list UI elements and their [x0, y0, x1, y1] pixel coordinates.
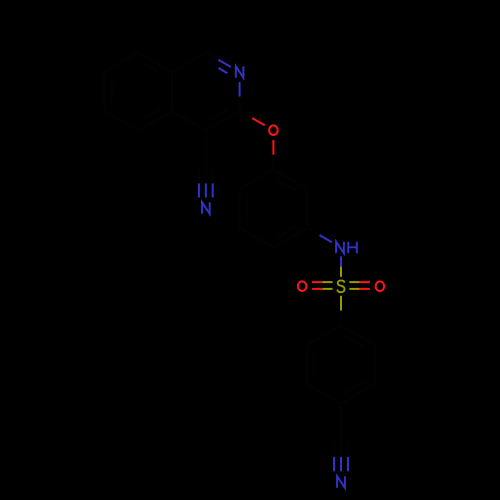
atom label O1 (ether oxygen) — [269, 125, 278, 135]
triple bond CN2#NN2 (para-cyano) — [340, 443, 342, 457]
bond C4a=C5 (double) — [138, 111, 172, 131]
bond C5-C6 — [104, 111, 138, 131]
bond O1-A1 — [272, 140, 274, 155]
bond B2-B3 — [374, 345, 376, 384]
bond C8=C8a (double) — [138, 53, 172, 73]
bond A5=A6 (double) — [239, 189, 241, 228]
bond C3=C4 (double) — [206, 111, 240, 131]
bond C1=N2 (isoquinoline C1 to ring N, double) — [206, 53, 219, 60]
bond B5=B6 (double) — [306, 345, 308, 384]
atom label N2 (isoquinoline nitrogen) — [236, 66, 244, 78]
bond B6-B1 — [307, 326, 341, 346]
benzene ring B: bond B1=B2 (double) — [341, 326, 375, 346]
bond C3-O1 (aryl ether) — [240, 111, 253, 118]
bond C8a-C1 — [172, 53, 206, 73]
bond S-B1 — [340, 296, 342, 311]
bond C7-C8 — [104, 53, 138, 73]
bond A3-N3 (to sulfonamide NH) — [307, 228, 319, 235]
bond A2-A3 — [306, 189, 308, 228]
bond A6-A1 — [240, 170, 274, 190]
bond C4-CN1 (to nitrile carbon) — [205, 131, 207, 170]
triple bond CN1#NN1 (nitrile) — [205, 170, 207, 184]
bond C4-C4a — [172, 111, 206, 131]
double bond S=O2 (left sulfonyl oxygen) — [322, 281, 332, 283]
bond C4a-C8a (ring fusion) — [171, 72, 173, 111]
atom label NN2 (para-cyano nitrogen) — [337, 476, 345, 488]
bond B4-CN2 (to nitrile carbon) — [340, 404, 342, 443]
atom label S (sulfonyl sulfur) — [337, 280, 344, 292]
benzene ring A: bond A1=A2 (double) — [273, 170, 307, 190]
bond C6=C7 (double) — [103, 72, 105, 111]
bond N2-C3 — [239, 82, 241, 97]
bond A3=A4 (double) — [273, 228, 307, 248]
bond A4-A5 — [240, 228, 274, 248]
atom label O3 (right sulfonyl oxygen) — [376, 281, 385, 291]
bond B3=B4 (double) — [341, 384, 375, 404]
bond N3-S — [340, 257, 342, 267]
bond B4-B5 — [307, 384, 341, 404]
atom label O2 (left sulfonyl oxygen) — [298, 281, 307, 291]
atom label NN1 (nitrile nitrogen) — [202, 202, 210, 214]
double bond S=O3 (right sulfonyl oxygen) — [349, 281, 359, 283]
atom label N3 H (sulfonamide NH) — [336, 242, 344, 254]
